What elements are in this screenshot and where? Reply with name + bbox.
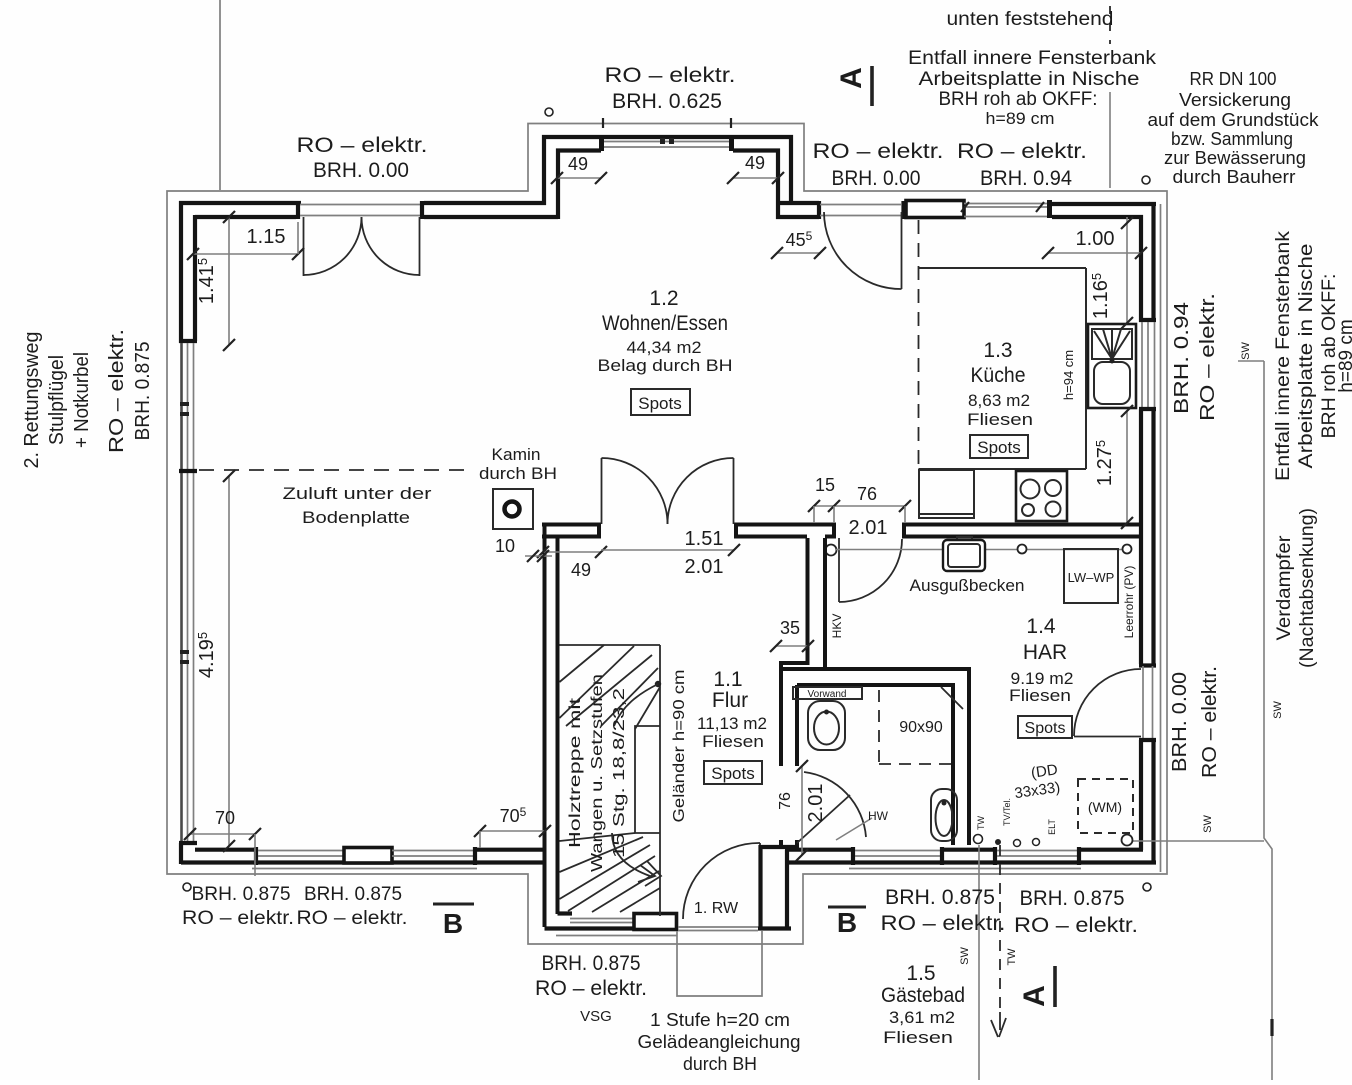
bay window glazing [601,141,733,143]
bottom wall right outer line [785,860,1156,864]
stair top edge [560,644,661,646]
svg-text:Spots: Spots [638,394,681,413]
svg-text:Flur: Flur [712,689,748,712]
stair walk line lower [612,833,650,876]
svg-text:Zuluft unter der: Zuluft unter der [283,484,432,503]
svg-text:44,34 m2: 44,34 m2 [627,338,702,357]
bottom right window cap [851,847,855,865]
bottom wall inner solid to stair bay [475,848,544,852]
dim 1.00 kitchen [1048,252,1141,254]
svg-text:1.00: 1.00 [1076,228,1115,250]
dim 45-5 [777,252,820,254]
svg-text:BRH. 0.00: BRH. 0.00 [832,167,921,190]
stove burner 2 [1045,480,1061,496]
svg-text:Kamin: Kamin [492,445,541,464]
Kamin ring [505,502,520,517]
svg-text:Arbeitsplatte in Nische: Arbeitsplatte in Nische [919,69,1140,90]
top wall inner line segment B [424,215,558,219]
SW corner circle [1122,835,1133,846]
stair bay bottom outer right piece [758,926,791,930]
svg-text:(Nachtabsenkung): (Nachtabsenkung) [1297,508,1318,668]
small circle bottom right [1143,883,1151,891]
svg-text:Entfall innere Fensterbank: Entfall innere Fensterbank [908,48,1157,69]
svg-text:8,63 m2: 8,63 m2 [968,391,1030,410]
stair bay bottom inner line [558,911,573,915]
svg-text:RR DN 100: RR DN 100 [1190,69,1277,89]
dim 1.41-5 vertical [228,217,230,345]
dim 76/2.01 bath door [801,766,803,855]
svg-text:TW: TW [1006,948,1018,966]
svg-text:Entfall innere Fensterbank: Entfall innere Fensterbank [1273,230,1294,481]
bottom right window cap 2 [1077,847,1081,865]
bottom-left sill line [252,868,477,870]
svg-text:Geländer h=90 cm: Geländer h=90 cm [671,670,688,823]
svg-text:Gelädeangleichung: Gelädeangleichung [638,1032,801,1052]
svg-text:BRH roh ab OKFF:: BRH roh ab OKFF: [939,89,1098,110]
divider wall flur/HAR [781,538,808,766]
svg-text:Wohnen/Essen: Wohnen/Essen [602,312,728,335]
svg-text:B: B [443,908,463,939]
SW pipe right hook [1238,360,1264,362]
svg-text:B: B [837,907,857,938]
svg-text:HW: HW [868,809,889,823]
HAR exterior door jamb bottom [1139,738,1156,742]
kitchen entry door jamb [817,201,821,219]
spots box kueche [970,435,1028,458]
svg-text:1.3: 1.3 [983,339,1012,362]
svg-text:h=94 cm: h=94 cm [1061,350,1076,400]
right wall solid below sink window outer [1151,409,1155,664]
shower 90x90 dashed [879,690,951,764]
right wall sink window glazing [1141,322,1143,408]
svg-text:A: A [1018,985,1051,1007]
svg-text:h=89 cm: h=89 cm [986,109,1055,128]
svg-text:15 Stg. 18,8/23,2: 15 Stg. 18,8/23,2 [611,688,628,858]
svg-text:BRH. 0.00: BRH. 0.00 [1169,672,1191,772]
TW arrow [991,1012,1006,1037]
sink basin [1094,362,1130,404]
bath TW dashed line [999,845,1001,1012]
left wall window W1 [180,343,183,843]
SW horizontal from WM corner [1133,840,1264,842]
section B right overline [828,906,866,909]
bay window left wall inner [558,151,601,220]
HAR exterior door arc [1074,669,1141,736]
dim 1.51 / 2.01 flur door [601,549,734,551]
wohnen-flur double door leaves [601,458,603,524]
svg-text:1.1: 1.1 [713,668,742,691]
dim 1.15 [193,253,298,255]
svg-text:BRH. 0.875: BRH. 0.875 [192,883,291,905]
dim 1.27-5 vertical [1126,411,1128,523]
stair landing cutout [635,726,660,833]
WC [931,789,957,841]
svg-text:2.01: 2.01 [805,784,827,823]
left wall window cap top [179,339,197,343]
bottom-right sill line [849,868,1081,870]
svg-text:(WM): (WM) [1088,799,1122,815]
svg-text:Vorwand: Vorwand [808,689,847,700]
stair bay window glazing [570,918,634,920]
svg-text:1.15: 1.15 [247,226,286,248]
svg-text:Leerrohr (PV): Leerrohr (PV) [1122,566,1136,639]
LW-WP box [1064,549,1118,603]
svg-text:BRH. 0.625: BRH. 0.625 [612,90,722,113]
svg-text:durch BH: durch BH [479,464,557,483]
svg-text:BRH. 0.94: BRH. 0.94 [1171,302,1193,414]
stair bay sill line [556,935,677,937]
svg-text:1. RW: 1. RW [694,900,739,917]
dim 49 bay left [557,177,601,179]
svg-text:durch BH: durch BH [683,1054,757,1074]
HAR exterior door threshold [1142,666,1144,739]
section A top [870,66,874,106]
french double door leaves [303,217,305,276]
svg-text:49: 49 [571,560,591,580]
svg-text:10: 10 [495,536,515,556]
french door right jamb cap [420,201,424,219]
svg-text:LW–WP: LW–WP [1068,570,1115,585]
bath SW line [978,845,980,1080]
spots box HAR [1018,716,1072,738]
kitchen entry door jamb right [901,201,905,219]
right wall lower inner [1139,740,1143,850]
svg-text:70: 70 [215,808,235,828]
svg-text:49: 49 [745,153,765,173]
SW pipe right vertical [1264,361,1272,1080]
svg-text:HKV: HKV [830,614,844,639]
bathroom top wall lower line [797,685,953,845]
small circle bay [545,108,553,116]
svg-text:Küche: Küche [971,364,1026,387]
svg-text:BRH. 0.875: BRH. 0.875 [304,883,402,905]
svg-text:RO – elektr.: RO – elektr. [297,134,428,157]
svg-text:BRH. 0.94: BRH. 0.94 [980,167,1072,190]
Ausgussbecken basin [943,540,985,571]
entrance door arc [683,843,760,919]
stair winder steps upper [560,645,605,682]
svg-text:3,61 m2: 3,61 m2 [889,1008,955,1027]
top wall window 2 cap [1047,200,1052,218]
bathroom door leaf [797,795,850,843]
top wall outer line segment A [179,201,301,205]
bottom wall right window W1 glazing [855,850,940,852]
section A bottom [1053,966,1057,1007]
svg-text:RO – elektr.: RO – elektr. [605,64,736,87]
kitchen stove [1016,471,1067,521]
washbasin [808,701,845,750]
svg-text:Fliesen: Fliesen [967,410,1033,429]
svg-text:Wangen u. Setzstufen: Wangen u. Setzstufen [589,674,606,872]
svg-text:RO – elektr.: RO – elektr. [1199,666,1221,778]
dim 70 [190,833,255,835]
right wall solid below sink window inner [1139,409,1143,664]
flur top wall upper line [542,523,599,527]
svg-text:1.4: 1.4 [1026,615,1056,638]
svg-text:zur Bewässerung: zur Bewässerung [1164,148,1306,168]
HAR exterior door leaf [1074,736,1141,738]
bottom wall window W2 glazing [392,850,473,852]
stair bay bottom outer line [545,926,679,930]
svg-text:15: 15 [815,475,835,495]
stair winder steps lower [560,833,636,841]
svg-text:RO – elektr.: RO – elektr. [106,329,128,453]
svg-text:1 Stufe h=20 cm: 1 Stufe h=20 cm [650,1010,790,1030]
svg-text:1.51: 1.51 [685,528,724,550]
spots box wohnen [631,389,690,415]
HAR door arc [839,539,902,602]
dim 49 flur [543,551,601,553]
grid line top-left [219,0,221,190]
stair right edge [659,645,661,916]
svg-text:RO – elektr.: RO – elektr. [1014,914,1138,937]
left wall outer line [179,201,183,343]
svg-text:RO – elektr.: RO – elektr. [182,907,294,929]
shower corner cut [941,687,963,709]
bottom wall right window W2 glazing [997,850,1077,852]
entrance porch [677,931,762,996]
flur bottom corner wall piece [760,845,799,849]
corner window top run [1052,202,1156,206]
svg-text:76: 76 [857,484,877,504]
svg-text:35: 35 [780,618,800,638]
svg-text:BRH. 0.875: BRH. 0.875 [885,886,995,909]
kitchen entry door threshold [820,204,901,206]
svg-text:1.5: 1.5 [906,962,935,985]
svg-text:auf dem Grundstück: auf dem Grundstück [1148,110,1320,130]
flur top wall door jamb caps [597,523,601,539]
svg-text:Verdampfer: Verdampfer [1274,535,1295,641]
svg-text:90x90: 90x90 [899,719,943,736]
Kamin box [493,489,533,529]
stair bay right wall [758,845,762,930]
svg-text:VSG: VSG [580,1008,612,1025]
small circle bottom left [183,883,191,891]
bottom right pier [940,847,944,865]
corner window right run [1151,202,1155,322]
svg-text:SW: SW [1272,701,1284,719]
svg-text:2.01: 2.01 [849,517,888,539]
stair bay left wall [543,526,547,927]
top wall outer line segment B [424,201,546,205]
svg-text:durch Bauherr: durch Bauherr [1173,167,1296,187]
stair walk line upper [614,684,658,726]
kitchen counter right edge [1085,268,1087,469]
svg-text:Spots: Spots [977,438,1020,457]
svg-text:Holztreppe mit: Holztreppe mit [567,697,584,848]
svg-text:Arbeitsplatte in Nische: Arbeitsplatte in Nische [1296,244,1317,469]
bottom wall roller window box [344,848,392,864]
svg-text:Fliesen: Fliesen [1009,686,1071,705]
left wall window stile marks [180,402,189,406]
bathroom left wall bottom jambs [779,840,783,849]
bathroom top wall upper line [781,669,969,845]
dim 4.19-5 vertical [228,476,230,846]
svg-text:11,13 m2: 11,13 m2 [697,714,767,733]
dim 35 [776,645,808,647]
right wall sink window cap [1139,407,1156,411]
entrance door threshold [678,926,758,928]
top wall window 2 glazing [964,203,1050,205]
HKV circle right [1123,545,1132,554]
left wall inner line [193,215,197,341]
kitchen dashed boundary [918,220,920,467]
corner window bottom cap [1139,318,1156,322]
svg-text:Fliesen: Fliesen [883,1028,953,1047]
svg-text:RO – elektr.: RO – elektr. [1197,293,1219,421]
svg-text:Spots: Spots [1025,720,1066,737]
svg-text:49: 49 [568,154,588,174]
svg-text:BRH. 0.875: BRH. 0.875 [1020,887,1125,910]
stair bay roller window box [634,914,677,930]
Ausgussbecken tap block [957,537,972,548]
svg-text:ELT: ELT [1047,819,1057,835]
leader line unten feststehend [1109,6,1111,44]
kitchen entry door arc [824,212,902,289]
kitchen sink unit box [1088,324,1136,408]
small circle top right [1142,176,1150,184]
svg-text:2. Rettungsweg: 2. Rettungsweg [21,332,43,469]
right wall outer face line [1160,204,1162,872]
bottom wall right inner piece 1 [785,848,851,852]
svg-text:RO – elektr.: RO – elektr. [881,912,1006,935]
svg-text:HAR: HAR [1023,641,1067,664]
stove burner 1 [1021,480,1040,499]
kitchen entry door leaf [901,212,903,289]
svg-text:bzw. Sammlung: bzw. Sammlung [1171,129,1293,149]
svg-text:+ Notkurbel: + Notkurbel [71,352,93,448]
svg-text:Fliesen: Fliesen [702,732,764,751]
svg-text:h=89 cm: h=89 cm [1336,319,1352,392]
svg-text:RO – elektr.: RO – elektr. [297,907,408,929]
kitchen counter bottom edge [919,468,1087,470]
top wall stub right of bay outer [776,201,819,205]
stove burner 3 [1022,504,1034,516]
left wall window cap bottom [179,841,197,845]
left wall pier cap [179,469,197,473]
bottom wall window cap [254,847,258,865]
section B left overline [433,903,474,906]
svg-text:BRH. 0.00: BRH. 0.00 [313,159,409,182]
svg-text:Gästebad: Gästebad [881,984,965,1007]
kitchen counter top edge [919,267,1087,269]
connection dots bathroom [974,835,983,844]
svg-text:BRH. 0.875: BRH. 0.875 [542,952,641,975]
dim 1.16-5 vertical [1126,217,1128,323]
spots box flur [704,761,762,784]
bay window stile mark [660,138,665,144]
svg-text:SW: SW [959,947,971,965]
stair walk line dot [655,681,661,687]
stove burner 4 [1046,502,1061,517]
bathroom left wall inner line [795,685,799,766]
bay window right wall inner [733,151,778,220]
WM dashed box [1078,779,1133,833]
Zuluft dashed line [199,469,466,471]
svg-text:TV/Tel.: TV/Tel. [1002,798,1012,826]
svg-text:76: 76 [777,792,794,810]
svg-text:A: A [835,67,868,89]
svg-text:Stulpflügel: Stulpflügel [46,355,68,445]
bottom wall inner right corner [1079,848,1143,852]
top wall inner line segment A [195,215,296,219]
french double door arcs [304,217,362,275]
flur top wall lower line [542,535,599,539]
top wall stub right of bay inner [776,215,819,219]
bay window boundary ticks [602,118,604,128]
svg-text:RO – elektr.: RO – elektr. [813,140,944,163]
HAR door leaf [838,538,840,602]
SW pipe dark tick [1270,1019,1273,1036]
HAR exterior door jamb top [1139,663,1156,667]
bottom wall left inner line [195,848,254,852]
right wall lower outer [1151,740,1155,864]
sink drainer fan [1092,329,1132,359]
HKV connection line [836,549,1127,551]
dim 49 bay right [733,177,778,179]
stair walk arrow [638,865,655,882]
svg-text:1.2: 1.2 [649,287,678,310]
svg-text:BRH. 0.875: BRH. 0.875 [132,342,154,441]
svg-text:Ausgußbecken: Ausgußbecken [910,576,1025,595]
svg-text:unten feststehend: unten feststehend [947,9,1114,30]
bottom wall left outer line [181,860,546,864]
svg-text:Belag durch BH: Belag durch BH [598,356,733,375]
french door threshold [300,204,422,206]
HKV circle mid [1018,545,1027,554]
kitchen fridge block [919,470,974,518]
svg-text:SW: SW [1240,342,1252,360]
bottom wall window cap right [473,847,477,865]
svg-text:2.01: 2.01 [685,556,724,578]
dim 70-5 [480,830,545,832]
svg-text:RO – elektr.: RO – elektr. [535,977,647,1000]
door jamb cap french door left [296,201,300,219]
entrance door leaf [759,843,761,920]
dim 15/76 HAR door [814,505,905,507]
svg-text:SW: SW [1202,815,1214,833]
dim 10 kamin [525,555,552,557]
svg-text:Bodenplatte: Bodenplatte [302,508,410,527]
bay window left wall outer [544,137,791,205]
bathroom door arc [804,772,866,837]
HAR door hinge circle [826,545,837,556]
HW leader [836,818,872,840]
top wall roller window box [906,201,964,218]
svg-text:TW: TW [976,816,986,830]
svg-text:Spots: Spots [711,764,754,783]
bottom wall window W1 glazing [258,850,344,852]
wohnen-flur double door arcs [602,458,668,524]
bay window end caps [599,136,604,151]
svg-text:RO – elektr.: RO – elektr. [957,140,1087,163]
Vorwand box [793,687,862,699]
svg-text:Versickerung: Versickerung [1179,90,1291,110]
exterior boundary line [167,124,1167,945]
